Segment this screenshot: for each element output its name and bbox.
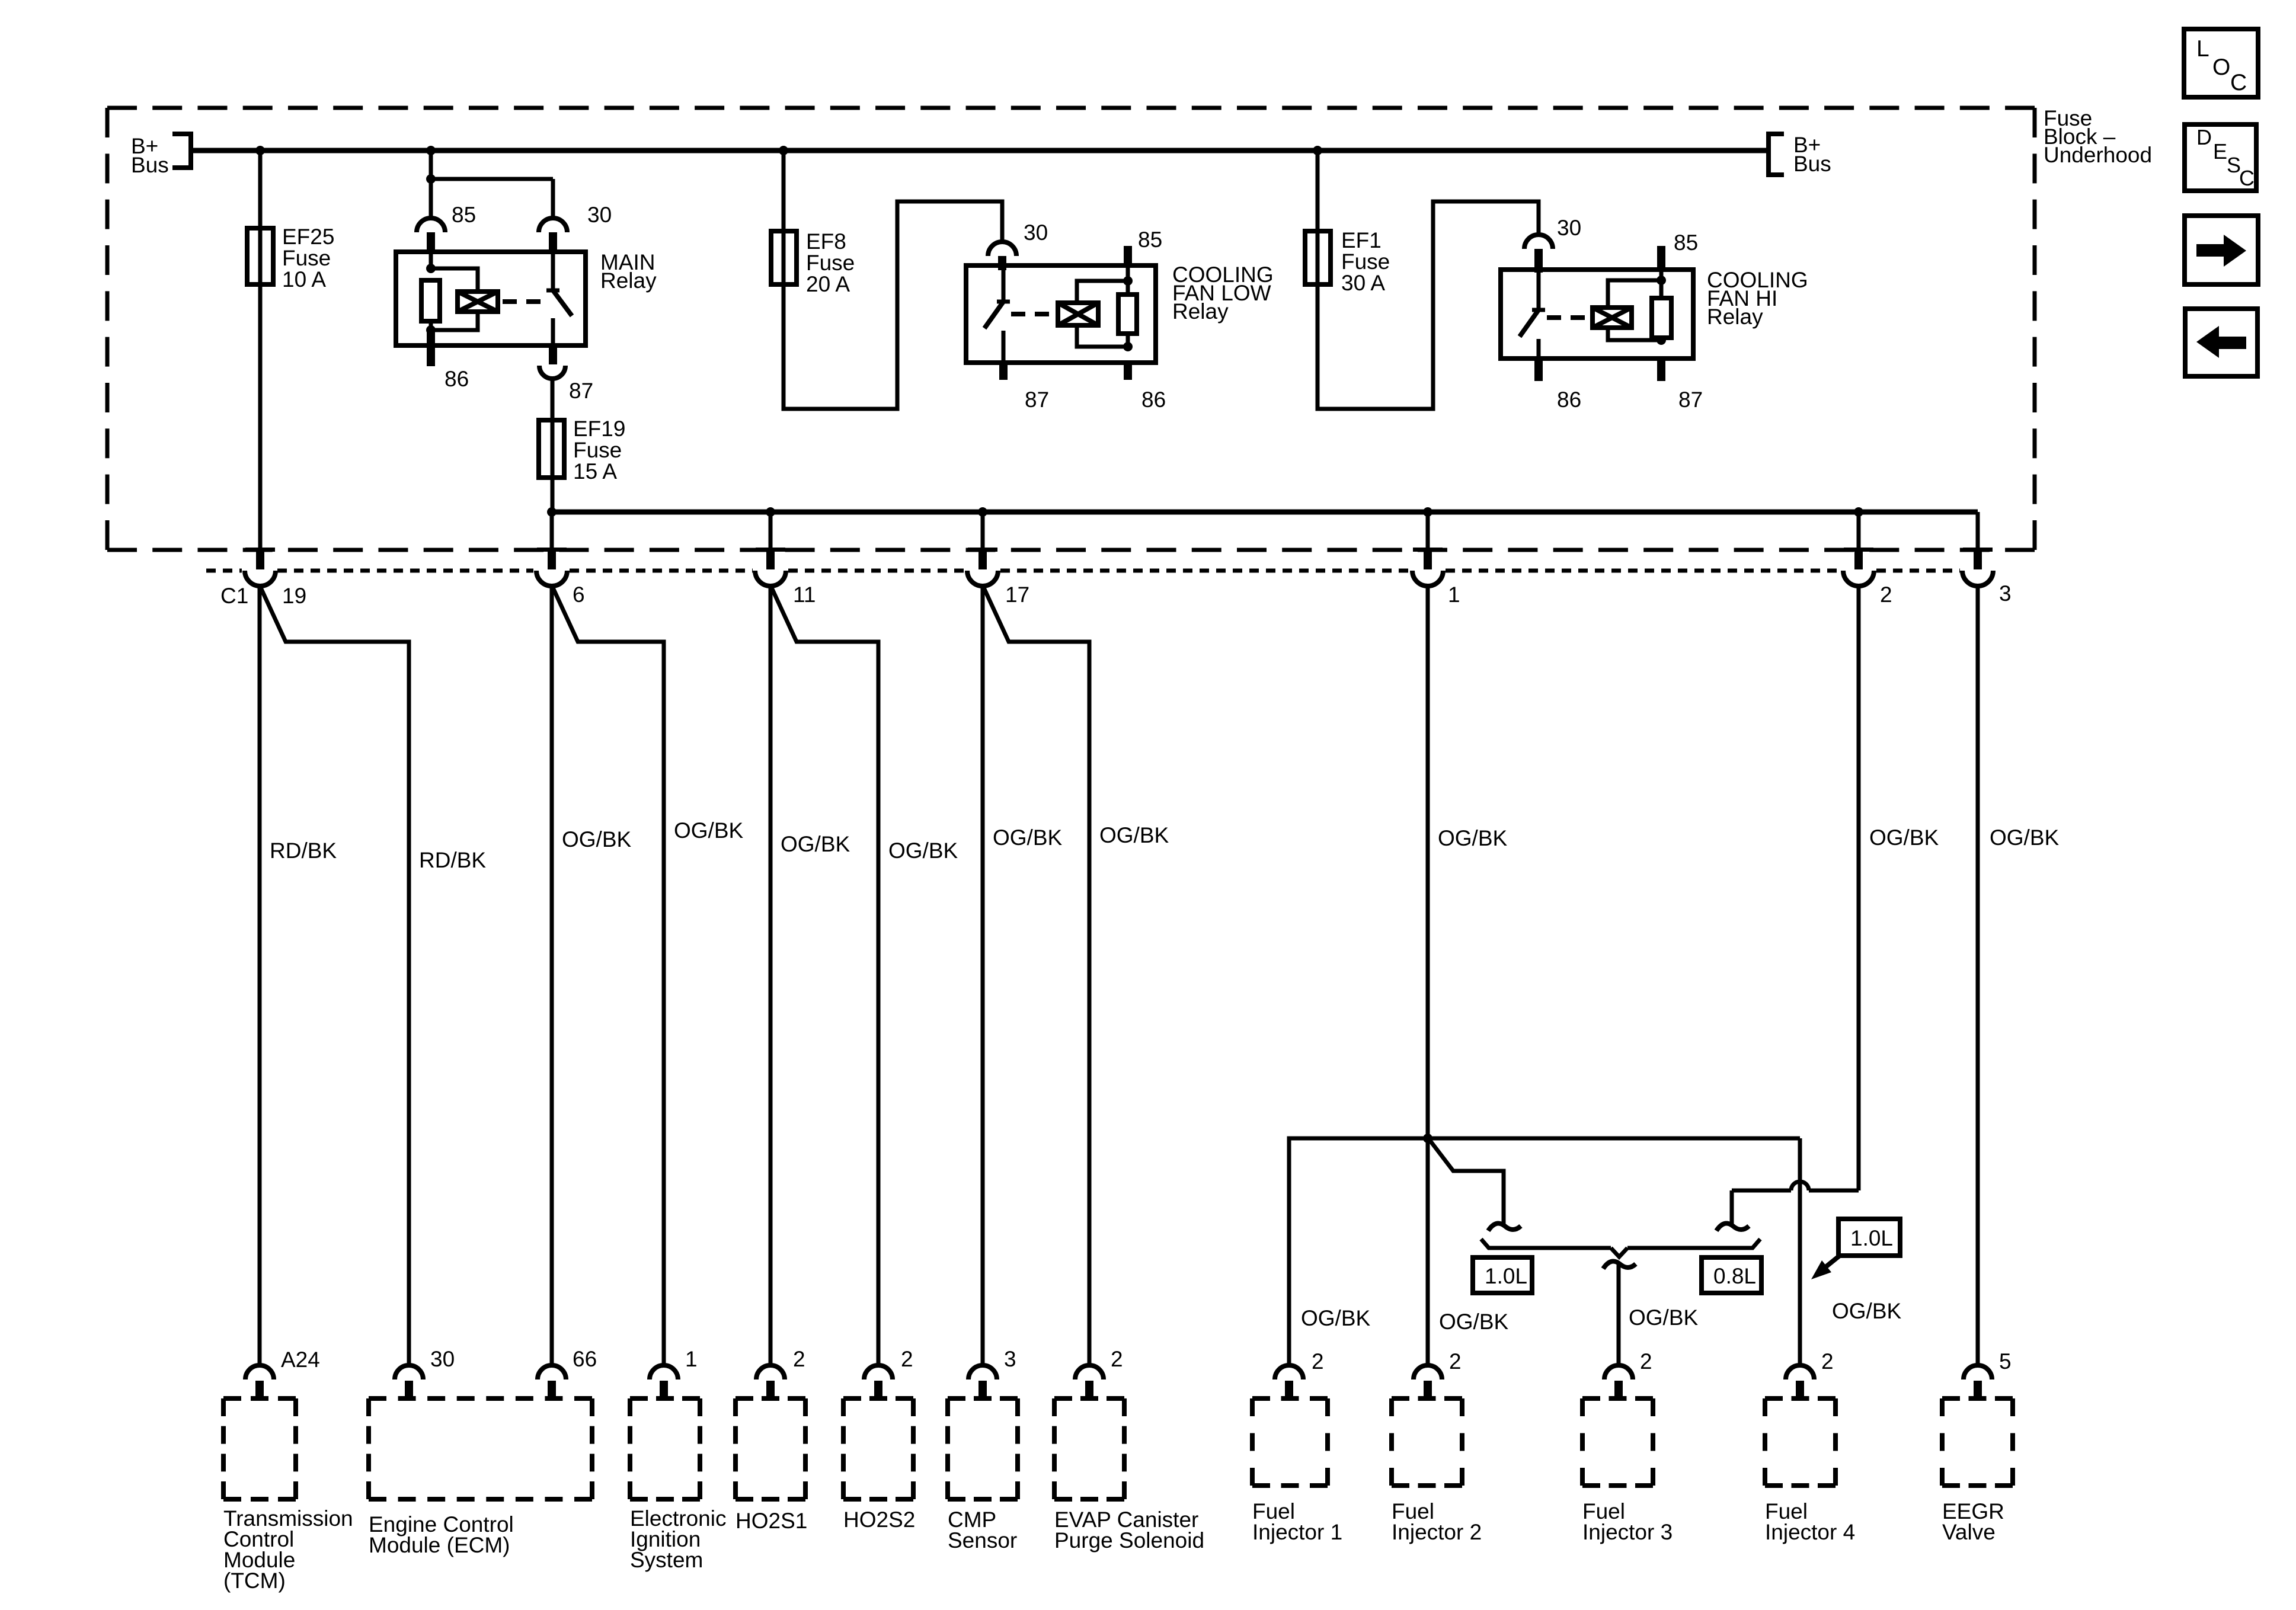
connector C1 pin 19 [245, 548, 276, 586]
svg-text:System: System [630, 1548, 703, 1572]
connector pin 17 [967, 548, 998, 586]
connector pin 1 [1412, 548, 1443, 586]
svg-text:A24: A24 [281, 1347, 320, 1372]
svg-text:2: 2 [901, 1347, 913, 1371]
svg-text:66: 66 [573, 1347, 597, 1371]
svg-text:OG/BK: OG/BK [1869, 825, 1939, 850]
svg-text:RD/BK: RD/BK [419, 848, 486, 872]
junction dot injector bus [1423, 1134, 1432, 1143]
node B+ Bus right label [1793, 133, 1831, 176]
junction dot FAN HI coil top [1657, 276, 1666, 285]
svg-text:86: 86 [445, 367, 469, 391]
svg-text:OG/BK: OG/BK [1439, 1310, 1509, 1334]
wire inner bus to connector 1 [1426, 512, 1430, 552]
pin 30 FAN HI [1534, 249, 1543, 273]
splice hook center FI3 [1603, 1262, 1636, 1269]
coil FAN LOW relay [1058, 303, 1098, 325]
svg-text:OG/BK: OG/BK [1629, 1305, 1699, 1330]
connector TCM pin A24 [245, 1365, 274, 1400]
relay COOLING FAN LOW box [966, 265, 1156, 363]
wire connector 3 to EEGR [1976, 512, 1980, 552]
svg-text:Valve: Valve [1942, 1520, 1996, 1544]
wire inner bus to connector 2 [1857, 512, 1861, 552]
svg-text:86: 86 [1141, 388, 1166, 412]
pin 87 FAN HI [1657, 359, 1665, 381]
box Electronic Ignition System dashed [630, 1398, 700, 1499]
connector EIS pin 1 [650, 1365, 678, 1400]
svg-text:(TCM): (TCM) [223, 1569, 286, 1593]
svg-text:3: 3 [1004, 1347, 1016, 1371]
svg-text:2: 2 [1640, 1349, 1652, 1374]
box Fuel Injector 3 dashed [1582, 1398, 1653, 1486]
connector arc FAN HI pin 30 [1524, 235, 1553, 249]
resistor MAIN relay [421, 280, 440, 321]
svg-text:85: 85 [1138, 228, 1162, 252]
resistor FAN HI relay [1652, 298, 1671, 338]
icon LOC box [2184, 29, 2258, 97]
svg-text:Sensor: Sensor [948, 1528, 1017, 1553]
wire bus to EF25 fuse [258, 151, 263, 552]
svg-text:2: 2 [1821, 1349, 1834, 1374]
junction dot FAN HI coil bottom [1657, 335, 1666, 345]
label box 0.8L [1702, 1257, 1761, 1293]
svg-text:Relay: Relay [1172, 299, 1229, 324]
pin 30 FAN LOW [998, 256, 1006, 270]
svg-text:OG/BK: OG/BK [1990, 825, 2060, 850]
wire FAN LOW coil loop top [1077, 281, 1128, 303]
wire branch to 1.0L splice left [1430, 1141, 1504, 1227]
svg-text:30 A: 30 A [1341, 271, 1385, 295]
dotted connector row [206, 569, 1960, 573]
label EF8 Fuse 20 A [806, 229, 855, 296]
fuse EF8 [771, 231, 797, 284]
label box 1.0L callout with arrow [1811, 1219, 1900, 1279]
connector pin 2 top [1843, 548, 1874, 586]
junction dot inner bus conn 17 [978, 507, 987, 517]
wire inner bus to connector 17 [981, 512, 985, 552]
svg-text:C: C [2230, 70, 2247, 95]
svg-text:OG/BK: OG/BK [781, 832, 850, 856]
wire MAIN coil loop top [431, 268, 478, 292]
fuse EF8 (wire below) [0, 0, 2, 2]
svg-text:2: 2 [1312, 1349, 1324, 1374]
node B+ Bus left bracket [172, 134, 191, 168]
label EF1 Fuse 30 A [1341, 228, 1390, 295]
svg-text:Relay: Relay [600, 268, 657, 293]
pin 87 MAIN [549, 346, 557, 364]
junction dot inner bus conn 1 [1423, 507, 1432, 517]
svg-text:1: 1 [685, 1347, 698, 1371]
svg-text:17: 17 [1005, 582, 1029, 607]
svg-text:15 A: 15 A [573, 459, 617, 484]
icon left arrow box [2185, 309, 2257, 376]
connector ECM pin 66 [538, 1365, 566, 1400]
wire FAN HI coil loop top [1608, 280, 1661, 308]
label EF25 Fuse 10 A [282, 225, 334, 292]
pin 87 FAN LOW [999, 363, 1008, 380]
box EEGR Valve dashed [1942, 1398, 2013, 1486]
label EVAP [1054, 1507, 1204, 1553]
wire connector 2 to splice right [1732, 585, 1859, 1227]
svg-text:2: 2 [1111, 1347, 1123, 1371]
dashed link MAIN relay [503, 299, 548, 304]
switch FAN LOW relay [984, 268, 1010, 363]
dashed link FAN LOW relay [1011, 312, 1056, 316]
svg-text:EF19: EF19 [573, 417, 625, 441]
svg-text:10 A: 10 A [282, 267, 326, 292]
svg-text:1.0L: 1.0L [1485, 1264, 1527, 1288]
wire MAIN coil loop bottom [431, 312, 478, 330]
svg-text:OG/BK: OG/BK [1099, 823, 1169, 847]
svg-text:2: 2 [1880, 582, 1892, 607]
relay COOLING FAN HI box [1501, 270, 1693, 359]
wire FAN LOW coil loop bottom [1077, 325, 1128, 347]
junction dot MAIN relay tap [426, 146, 436, 155]
connector ECM pin 30 [395, 1365, 423, 1400]
connector pin 3 top [1962, 548, 1993, 586]
coil MAIN relay [458, 292, 498, 312]
svg-text:11: 11 [793, 582, 816, 607]
junction dot MAIN coil bottom [426, 325, 436, 335]
svg-text:Injector 2: Injector 2 [1392, 1520, 1482, 1544]
wire bus down to relay branch [429, 151, 433, 179]
wire branch 17 to EVAP [984, 588, 1089, 1366]
svg-text:87: 87 [1025, 388, 1049, 412]
icon DESC box [2185, 124, 2256, 191]
svg-text:Injector 1: Injector 1 [1252, 1520, 1342, 1544]
label ECM [369, 1512, 514, 1557]
wire MAIN resistor bottom lead [429, 321, 433, 330]
svg-text:2: 2 [1449, 1349, 1462, 1374]
label Fuel Injector 1 [1252, 1499, 1342, 1544]
label box 1.0L left [1473, 1257, 1532, 1293]
svg-text:1.0L: 1.0L [1850, 1226, 1893, 1250]
svg-text:87: 87 [569, 379, 593, 403]
svg-text:EF8: EF8 [806, 229, 846, 254]
fuse EF1 [1305, 231, 1331, 284]
junction dot EF8 tap [779, 146, 788, 155]
relay MAIN box [396, 252, 586, 345]
junction dot EF25 tap [255, 146, 265, 155]
wire MAIN coil top lead [429, 254, 433, 268]
pin 85 FAN LOW [1124, 246, 1132, 268]
label Fuel Injector 3 [1582, 1499, 1673, 1544]
wire to MAIN pin 85 [429, 179, 433, 220]
wire EF8 S-bend to FAN LOW pin 30 [784, 151, 1002, 409]
svg-text:0.8L: 0.8L [1713, 1264, 1756, 1288]
label TCM [223, 1506, 353, 1593]
svg-text:O: O [2212, 55, 2230, 80]
box HO2S1 dashed [736, 1398, 805, 1499]
svg-text:Fuse: Fuse [1341, 249, 1390, 274]
node B+ Bus right bracket [1769, 134, 1784, 175]
connector arc FAN LOW pin 30 [988, 242, 1016, 256]
svg-text:1: 1 [1448, 582, 1460, 607]
junction dot inner bus conn 2 [1854, 507, 1863, 517]
connector arc MAIN pin 87 [539, 366, 565, 379]
pin 86 FAN HI [1534, 359, 1543, 381]
connector arc MAIN pin 30 [539, 218, 567, 232]
wire connector 19 to TCM [258, 585, 262, 1366]
connector FI2 pin 2 [1414, 1365, 1442, 1400]
label MAIN Relay [600, 250, 657, 293]
wire FI3 column [1617, 1265, 1621, 1366]
box CMP Sensor dashed [948, 1398, 1018, 1499]
connector FI3 pin 2 [1604, 1365, 1633, 1400]
junction dot EF1 tap [1313, 146, 1322, 155]
svg-text:OG/BK: OG/BK [1438, 826, 1508, 850]
node B+ Bus left label [131, 134, 169, 177]
svg-text:HO2S2: HO2S2 [843, 1507, 915, 1532]
switch MAIN relay [546, 254, 572, 346]
svg-text:Fuse: Fuse [282, 246, 331, 270]
svg-text:Fuse: Fuse [573, 438, 622, 462]
svg-text:Injector 3: Injector 3 [1582, 1520, 1673, 1544]
svg-text:Injector 4: Injector 4 [1765, 1520, 1855, 1544]
wire FAN LOW resistor leads [1126, 265, 1130, 347]
connector pin 11 [755, 548, 786, 586]
pin 86 FAN LOW [1124, 363, 1132, 380]
wire to MAIN pin 30 [551, 179, 555, 220]
connector pin 6 [536, 548, 567, 586]
svg-text:EF25: EF25 [282, 225, 334, 249]
coil FAN HI relay [1593, 308, 1632, 328]
svg-text:HO2S1: HO2S1 [736, 1509, 807, 1533]
switch FAN HI relay [1520, 273, 1545, 359]
svg-text:L: L [2196, 36, 2209, 62]
svg-text:C: C [2239, 166, 2255, 190]
wire connector 11 to HO2S1 [769, 585, 773, 1366]
junction dot FAN LOW coil bottom [1123, 342, 1133, 351]
label EIS [630, 1506, 726, 1572]
connector FI4 pin 2 [1786, 1365, 1814, 1400]
svg-text:Fuse: Fuse [806, 251, 855, 275]
svg-text:OG/BK: OG/BK [674, 818, 744, 843]
svg-text:85: 85 [1674, 231, 1698, 255]
svg-text:E: E [2213, 139, 2227, 164]
svg-text:30: 30 [430, 1347, 455, 1371]
connector HO2S1 pin 2 [756, 1365, 785, 1400]
junction dot FAN LOW coil top [1123, 276, 1133, 286]
svg-text:Purge Solenoid: Purge Solenoid [1054, 1528, 1204, 1553]
svg-text:OG/BK: OG/BK [562, 827, 632, 852]
svg-text:D: D [2196, 125, 2212, 149]
fuse EF19 [539, 420, 564, 478]
wire injector junction bus [1289, 1138, 1800, 1366]
wire branch 11 to HO2S2 [772, 588, 878, 1366]
splice hook left [1488, 1224, 1521, 1231]
wire connector 6 to ECM pin 66 [550, 585, 554, 1366]
fuse block dashed border [107, 108, 2035, 550]
wire FI4 column [1798, 1138, 1802, 1366]
wire inner bus [552, 510, 1978, 515]
pin 85 FAN HI [1657, 246, 1665, 272]
svg-text:C1: C1 [220, 584, 248, 608]
label Fuel Injector 4 [1765, 1499, 1855, 1544]
label Fuse Block - Underhood [2044, 106, 2152, 167]
box Fuel Injector 4 dashed [1765, 1398, 1835, 1486]
pin 30 MAIN [549, 232, 557, 254]
box HO2S2 dashed [843, 1398, 913, 1499]
splice hook right [1716, 1224, 1749, 1231]
pin 86 MAIN [427, 330, 435, 366]
svg-text:86: 86 [1557, 388, 1581, 412]
wire connector 1 down [1426, 585, 1430, 1366]
wire inner bus to connector 11 [769, 512, 773, 552]
svg-text:87: 87 [1678, 388, 1703, 412]
svg-text:OG/BK: OG/BK [1301, 1306, 1371, 1330]
svg-text:Underhood: Underhood [2044, 143, 2152, 167]
wire MAIN 87 to EF19 [551, 379, 555, 512]
wire FAN HI resistor leads [1659, 272, 1664, 340]
wire branch 19 to ECM pin 30 [261, 588, 409, 1366]
wire EF1 S-bend to FAN HI pin 30 [1318, 151, 1539, 409]
wire B+ bus bar [191, 148, 1769, 153]
connector CMP pin 3 [968, 1365, 997, 1400]
junction dot MAIN coil top [426, 264, 436, 273]
box EVAP Canister Purge Solenoid dashed [1054, 1398, 1124, 1499]
fuse EF1 (wire below) [0, 0, 2, 2]
connector arc MAIN pin 85 [417, 218, 445, 232]
svg-text:19: 19 [282, 584, 306, 608]
pin 85 MAIN [427, 232, 435, 254]
svg-text:3: 3 [1999, 581, 2012, 606]
svg-text:Bus: Bus [131, 153, 169, 177]
svg-text:OG/BK: OG/BK [1832, 1299, 1902, 1323]
connector EVAP pin 2 [1075, 1365, 1104, 1400]
svg-text:Module (ECM): Module (ECM) [369, 1533, 510, 1557]
svg-text:OG/BK: OG/BK [993, 825, 1063, 850]
svg-text:2: 2 [793, 1347, 805, 1371]
svg-text:EF1: EF1 [1341, 228, 1382, 252]
svg-text:RD/BK: RD/BK [270, 838, 337, 863]
resistor FAN LOW relay [1118, 295, 1137, 334]
connector EEGR pin 5 [1964, 1365, 1992, 1400]
svg-text:20 A: 20 A [806, 272, 850, 296]
svg-text:Bus: Bus [1793, 152, 1831, 176]
wire branch 6 to EIS [553, 588, 664, 1366]
junction dot inner bus conn 11 [766, 507, 775, 517]
label EF19 Fuse 15 A [573, 417, 625, 484]
label COOLING FAN LOW Relay [1172, 263, 1274, 324]
wire connector 17 to CMP [981, 585, 985, 1366]
fuse EF25 [247, 228, 273, 284]
connector FI1 pin 2 [1275, 1365, 1303, 1400]
label CMP Sensor [948, 1507, 1017, 1553]
svg-text:30: 30 [1024, 220, 1048, 245]
wire FAN HI coil loop bottom [1608, 328, 1661, 340]
svg-text:30: 30 [587, 203, 612, 227]
label Fuel Injector 2 [1392, 1499, 1482, 1544]
icon right arrow box [2185, 216, 2258, 284]
label EEGR Valve [1942, 1499, 2004, 1544]
svg-text:30: 30 [1557, 216, 1581, 240]
svg-text:OG/BK: OG/BK [888, 838, 958, 863]
box Transmission Control Module dashed [223, 1398, 296, 1499]
connector HO2S2 pin 2 [864, 1365, 893, 1400]
svg-text:5: 5 [1999, 1349, 2012, 1374]
svg-text:6: 6 [573, 582, 585, 607]
box Fuel Injector 2 dashed [1392, 1398, 1462, 1486]
box Engine Control Module dashed [369, 1398, 592, 1499]
wire MAIN branch horizontal [431, 177, 553, 181]
wire connector 6 feed [550, 512, 554, 552]
brace variant line [1481, 1239, 1760, 1257]
junction dot MAIN branch [426, 174, 436, 184]
dashed link FAN HI relay [1547, 315, 1590, 320]
label COOLING FAN HI Relay [1707, 268, 1808, 329]
box Fuel Injector 1 dashed [1252, 1398, 1328, 1486]
junction dot inner bus at EF19 [547, 507, 557, 517]
svg-text:85: 85 [452, 203, 476, 227]
svg-text:Relay: Relay [1707, 305, 1763, 329]
